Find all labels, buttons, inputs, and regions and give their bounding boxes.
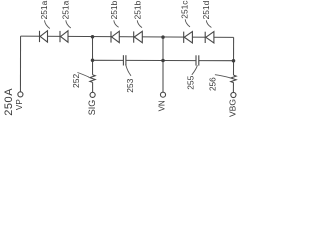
svg-text:253: 253 — [125, 78, 135, 92]
leader label 251a D1 — [45, 20, 50, 28]
terminal circle VBG — [231, 92, 236, 97]
terminal circle VN — [160, 92, 165, 97]
leader label 251a D2 — [66, 20, 71, 28]
wire VP column — [19, 36, 21, 92]
diode 251d D6 — [205, 32, 214, 43]
node dot top SIG — [91, 35, 95, 39]
leader label 253 — [126, 64, 131, 76]
svg-text:256: 256 — [209, 77, 218, 91]
wire VBG column lower — [232, 83, 234, 93]
svg-text:VP: VP — [15, 99, 24, 110]
wire SIG column lower — [92, 82, 94, 92]
diode 251b D3 — [111, 31, 119, 42]
wire top bus VP to right corner — [21, 36, 234, 37]
svg-text:251d: 251d — [201, 0, 211, 19]
wire VN column — [162, 37, 164, 92]
capacitor C255 plates — [196, 55, 199, 65]
leader label 251c D5 — [185, 19, 190, 27]
svg-text:255: 255 — [186, 75, 196, 89]
leader label 251b D4 — [137, 20, 142, 27]
svg-text:250A: 250A — [3, 88, 15, 116]
node dot lower SIG — [91, 59, 95, 63]
leader label 256 — [215, 75, 231, 78]
svg-text:VBG: VBG — [227, 99, 237, 117]
leader label 251d D6 — [206, 20, 211, 27]
capacitor C253 plates — [123, 55, 126, 65]
terminal circle VP — [18, 92, 23, 97]
leader label 252 — [77, 73, 89, 78]
wire lower bus segment VN node to cap 255 — [163, 60, 196, 62]
svg-text:251c: 251c — [180, 1, 190, 19]
terminal circle SIG — [90, 92, 95, 97]
wire lower bus segment cap 255 to VBG node — [199, 60, 234, 62]
diode 251a D1 — [40, 31, 48, 42]
resistor R252 zigzag — [90, 75, 95, 83]
leader label 251b D3 — [114, 20, 119, 27]
resistor R256 zigzag — [231, 75, 236, 82]
wire VBG column upper — [233, 37, 235, 75]
wire lower bus segment SIG node to cap 253 — [93, 59, 124, 61]
node dot top VN — [161, 35, 165, 39]
leader label 255 — [192, 65, 198, 75]
svg-text:252: 252 — [71, 74, 81, 88]
svg-text:SIG: SIG — [87, 100, 97, 116]
svg-text:251b: 251b — [109, 0, 119, 19]
svg-text:251b: 251b — [132, 0, 142, 19]
svg-text:251a: 251a — [60, 0, 70, 19]
node dot lower VBG — [232, 59, 236, 63]
svg-text:VN: VN — [158, 100, 167, 111]
diode 251c D5 — [184, 32, 193, 43]
wire lower bus segment cap 253 to VN node — [126, 59, 163, 61]
node dot lower VN — [161, 59, 165, 63]
diode 251a D2 — [60, 31, 68, 42]
wire SIG column upper — [92, 37, 94, 75]
diode 251b D4 — [134, 31, 143, 42]
svg-text:251a: 251a — [39, 0, 49, 19]
